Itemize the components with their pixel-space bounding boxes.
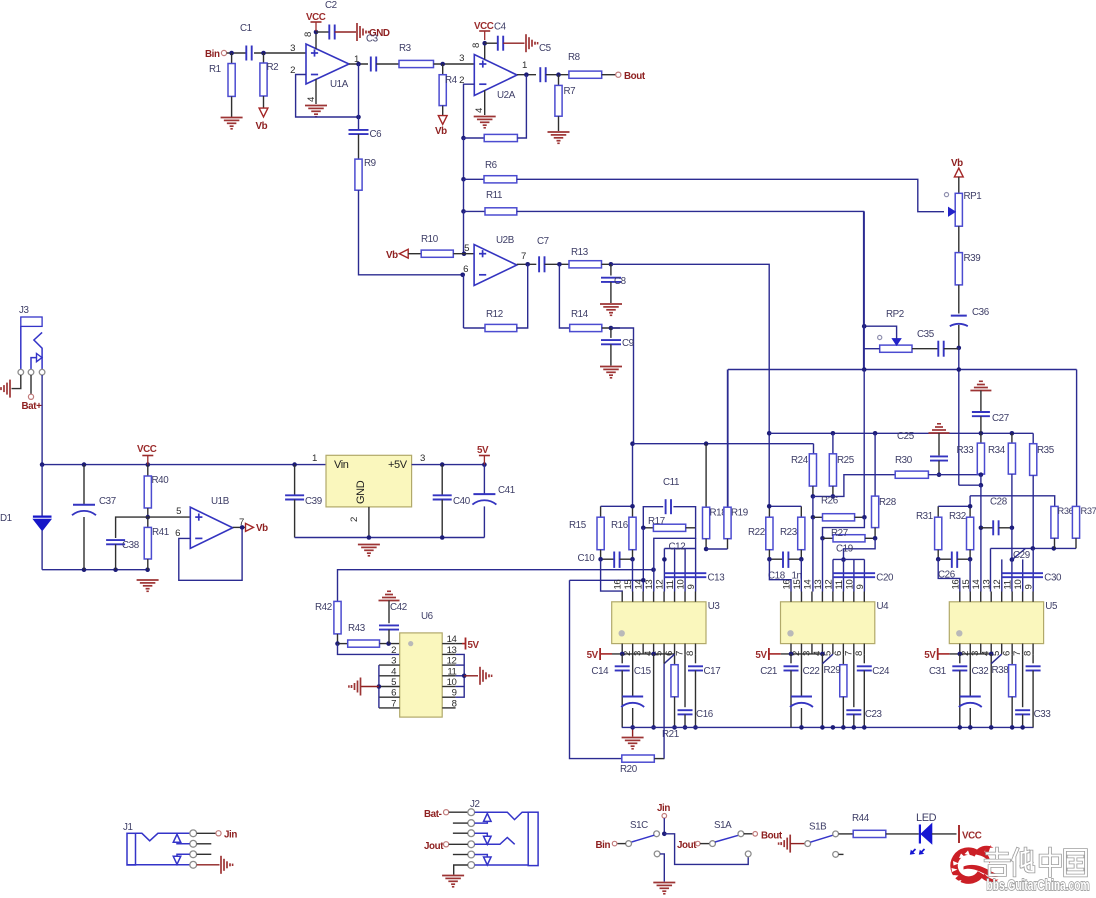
- wire row below R35: [991, 547, 1077, 549]
- wire pin columns U5 right: [1002, 548, 1033, 591]
- svg-text:C13: C13: [708, 573, 726, 584]
- resistor R5 feedback: [484, 134, 517, 141]
- terminal marker RP2: [878, 335, 882, 339]
- svg-text:VCC: VCC: [474, 21, 494, 32]
- svg-text:9: 9: [855, 585, 866, 590]
- svg-text:R27: R27: [831, 528, 848, 539]
- ground at C8: [600, 304, 622, 315]
- svg-text:7: 7: [391, 698, 396, 709]
- svg-text:9: 9: [1024, 585, 1035, 590]
- diode D1: [33, 517, 52, 531]
- svg-text:11: 11: [665, 580, 676, 589]
- wire U2B output: [517, 263, 537, 265]
- svg-text:R4: R4: [445, 75, 458, 86]
- regulator GND pin wire: [368, 507, 370, 538]
- op-amp U2A: [474, 55, 517, 102]
- svg-text:C16: C16: [696, 709, 714, 720]
- resistor R26: [813, 496, 865, 521]
- junction R27 left: [820, 536, 825, 541]
- resistor R37: [1072, 506, 1096, 548]
- resistor R39: [955, 253, 980, 285]
- junction R40 R41: [146, 515, 151, 520]
- svg-text:R7: R7: [564, 86, 576, 97]
- svg-text:Jout: Jout: [424, 841, 444, 852]
- wire R11 column: [863, 211, 865, 369]
- svg-text:7: 7: [675, 651, 686, 656]
- wire RP2 to C35: [912, 348, 938, 350]
- wire U2A pin2 down: [464, 84, 475, 138]
- capacitor C18: [768, 552, 801, 582]
- junctions on ground rail left: [82, 567, 150, 572]
- wire to U6 pin2: [338, 644, 400, 655]
- wire D1 down: [41, 531, 43, 570]
- wire U6 right pin bracket: [456, 654, 465, 697]
- resistor R42: [315, 601, 341, 634]
- wire to R11: [464, 210, 486, 212]
- jack J2 body: [528, 812, 538, 865]
- svg-text:C4: C4: [494, 22, 507, 33]
- pin 4 label U2A: [474, 107, 485, 113]
- wire S1B to R44: [839, 833, 854, 835]
- resistor R32: [949, 506, 974, 559]
- resistor R17: [643, 516, 695, 531]
- svg-text:C24: C24: [872, 666, 890, 677]
- ground at S1C: [653, 883, 675, 894]
- ground at J2: [442, 876, 464, 887]
- label C25: [897, 431, 915, 442]
- capacitor C40: [433, 495, 471, 507]
- wire C41 down: [483, 506, 485, 537]
- contact S1C throw: [626, 841, 632, 847]
- wire R18 to R19 bottom: [706, 548, 727, 550]
- capacitor C27: [972, 412, 1009, 432]
- wire Jout to S1A: [700, 843, 710, 845]
- svg-text:R25: R25: [837, 455, 855, 466]
- svg-text:7: 7: [843, 651, 854, 656]
- junction at R11: [461, 209, 466, 214]
- capacitor C26: [938, 552, 970, 581]
- junction at R6: [461, 177, 466, 182]
- IC U5 bottom pins: [960, 644, 1034, 656]
- op-amp U2B: [474, 235, 517, 286]
- svg-text:C35: C35: [917, 329, 935, 340]
- svg-text:RP1: RP1: [964, 191, 982, 202]
- resistor R10: [408, 234, 474, 257]
- capacitor C16: [678, 654, 714, 727]
- resistor R22: [748, 506, 773, 559]
- junctions U5 ground rail: [958, 725, 1025, 730]
- svg-text:R10: R10: [421, 234, 439, 245]
- pin 5 label U1B: [176, 506, 181, 517]
- junction at R1 top: [229, 51, 234, 56]
- pin 6 label U2B: [463, 264, 468, 275]
- svg-text:C15: C15: [634, 666, 652, 677]
- wire top feed line1: [769, 432, 1033, 434]
- wire R14 out: [602, 327, 620, 329]
- svg-text:C41: C41: [498, 485, 515, 496]
- wire U1A output: [349, 63, 368, 65]
- svg-text:R11: R11: [486, 190, 502, 201]
- wire R13 column to R22: [767, 431, 772, 506]
- pin 3 label U2A: [459, 53, 464, 64]
- wire C9 column to R16: [630, 441, 635, 506]
- svg-text:Vb: Vb: [256, 523, 268, 534]
- resistor R3: [399, 43, 434, 68]
- svg-text:8: 8: [471, 43, 482, 48]
- capacitor C42: [379, 602, 407, 630]
- junction C39 top: [292, 462, 297, 467]
- svg-text:C2: C2: [325, 0, 337, 11]
- jack J2 tip contact: [475, 812, 529, 819]
- junction C36 C35: [957, 346, 962, 351]
- resistor R23: [780, 506, 805, 559]
- svg-text:R28: R28: [879, 497, 897, 508]
- junction bus R11 column: [862, 367, 867, 372]
- wire junction down to U5: [958, 348, 960, 485]
- port Bout at S1A: [753, 830, 783, 841]
- label S1C: [630, 820, 648, 831]
- IC U3 body: [612, 601, 721, 644]
- port Jin at S1C: [657, 803, 670, 818]
- capacitor C32: [959, 654, 988, 727]
- svg-text:U1B: U1B: [211, 496, 230, 507]
- potentiometer RP2: [880, 339, 912, 353]
- svg-text:C14: C14: [591, 666, 609, 677]
- junctions C18 row: [767, 557, 803, 562]
- wire R24 R25 bottoms: [813, 494, 835, 499]
- resistor R20: [620, 755, 654, 775]
- svg-text:C40: C40: [453, 496, 471, 507]
- resistor R36: [1051, 506, 1074, 548]
- wire R24 column down: [811, 496, 816, 519]
- svg-text:6: 6: [175, 528, 180, 539]
- capacitor C17: [688, 654, 720, 727]
- junction R18 bottom: [704, 547, 709, 552]
- wire R26 right S-bend: [823, 517, 865, 538]
- capacitor C11: [663, 477, 679, 514]
- wire down to U2B pin5: [463, 211, 465, 253]
- power 5V at regulator: [477, 445, 490, 465]
- svg-text:Vin: Vin: [334, 459, 349, 471]
- pin 4 wire U2A: [484, 90, 486, 115]
- resistor R9: [355, 158, 376, 190]
- label +5V: [388, 459, 408, 471]
- jack J2 sleeve wire: [475, 864, 529, 867]
- junction C28 left: [979, 526, 984, 531]
- svg-text:2: 2: [391, 645, 396, 656]
- potentiometer RP1: [949, 191, 982, 226]
- svg-text:C11: C11: [663, 477, 679, 488]
- junction RP2 wiper: [862, 324, 867, 329]
- wire C39 down: [294, 500, 296, 538]
- capacitor C37: [72, 496, 116, 515]
- label J1: [123, 822, 133, 833]
- resistor R35: [1030, 433, 1055, 548]
- svg-text:C30: C30: [1044, 573, 1062, 584]
- wire to C38: [116, 517, 148, 538]
- jack J1 switch arrow down: [173, 854, 190, 864]
- resistor R38: [992, 654, 1016, 727]
- IC U3 bottom pins: [622, 644, 696, 656]
- svg-text:5: 5: [464, 243, 469, 254]
- svg-text:10: 10: [447, 677, 457, 688]
- jack J3 hook contact: [34, 332, 42, 369]
- power Vb below R2: [256, 108, 268, 132]
- svg-text:C38: C38: [122, 540, 140, 551]
- svg-text:R41: R41: [152, 527, 169, 538]
- svg-text:LED: LED: [916, 812, 937, 824]
- svg-text:GND: GND: [355, 480, 367, 504]
- capacitor C19 bracket: [833, 544, 864, 592]
- wire R42 to U3 pin13: [338, 570, 654, 602]
- svg-text:5V: 5V: [468, 640, 480, 651]
- resistor R43: [338, 623, 400, 647]
- svg-text:R14: R14: [571, 309, 589, 320]
- wire C6 to R9: [358, 134, 360, 159]
- capacitor C38: [106, 540, 140, 551]
- wire bracket R22 R23 tops: [769, 505, 801, 507]
- resistor R25: [829, 433, 854, 496]
- wire to R5: [464, 137, 485, 139]
- LED D2: [920, 824, 932, 844]
- resistor R8: [568, 52, 602, 78]
- resistor R6: [484, 160, 517, 183]
- pin 4 wire U1A: [315, 79, 317, 104]
- svg-text:8: 8: [303, 32, 314, 37]
- wire R12 to output: [517, 264, 528, 328]
- wire R20 right: [654, 758, 664, 760]
- ground at S1B: [779, 835, 791, 853]
- ground at U6 left: [349, 678, 379, 696]
- wire line2 to R24: [813, 444, 815, 454]
- svg-text:C19: C19: [836, 544, 853, 555]
- wire S1A to Bout: [744, 833, 753, 835]
- svg-text:11: 11: [834, 580, 845, 589]
- capacitor C36: [950, 307, 990, 326]
- jack J2 ring contact: [475, 838, 515, 845]
- capacitor C28: [981, 497, 1012, 536]
- wire LED to VCC: [932, 833, 957, 835]
- svg-text:8: 8: [685, 651, 696, 656]
- power 5V at U3: [587, 648, 612, 661]
- wire R16 to pin15: [632, 559, 634, 591]
- svg-text:R20: R20: [620, 764, 638, 775]
- jack J3 body: [21, 317, 42, 326]
- capacitor C39: [285, 495, 322, 507]
- wire Bat- to J2: [449, 811, 468, 813]
- svg-text:C6: C6: [370, 129, 383, 140]
- svg-text:6: 6: [391, 688, 396, 699]
- power 5V at U6 pin14: [456, 638, 480, 652]
- wire pin14 column U5: [980, 485, 982, 591]
- svg-text:Vb: Vb: [435, 126, 447, 137]
- inverted ground at C25: [929, 424, 950, 456]
- wire R42 down: [337, 634, 339, 644]
- svg-text:Vb: Vb: [386, 250, 398, 261]
- wire C36 down: [958, 325, 960, 348]
- svg-text:R13: R13: [571, 247, 589, 258]
- svg-text:S1B: S1B: [809, 822, 827, 833]
- jack J2 switch arrow 1: [475, 813, 491, 823]
- wire Bin to U1A pin3: [227, 52, 306, 54]
- svg-text:Bout: Bout: [624, 71, 646, 82]
- svg-text:5V: 5V: [924, 650, 936, 661]
- svg-text:C37: C37: [99, 496, 116, 507]
- pin 1 label U1A: [354, 54, 359, 65]
- svg-text:C20: C20: [876, 573, 894, 584]
- svg-text:R26: R26: [821, 496, 839, 507]
- svg-text:3: 3: [391, 656, 396, 667]
- ground below U3: [622, 727, 644, 748]
- svg-text:C33: C33: [1034, 709, 1052, 720]
- resistor R33: [957, 433, 985, 474]
- capacitor C13: [664, 573, 725, 584]
- pin 8 wire U2A: [484, 43, 486, 59]
- svg-text:10: 10: [1013, 580, 1024, 590]
- wire ground rail left: [42, 569, 148, 571]
- junction U3 pin13 net: [651, 567, 656, 572]
- pin 3 label U1A: [290, 43, 295, 54]
- wire RP2 column to R26: [862, 370, 867, 520]
- svg-text:12: 12: [655, 580, 666, 590]
- svg-text:U5: U5: [1045, 601, 1058, 612]
- junction at R7 top: [556, 72, 561, 77]
- switch S1C blade: [631, 835, 654, 842]
- svg-text:13: 13: [644, 580, 655, 590]
- svg-text:1n: 1n: [792, 571, 802, 582]
- svg-text:6: 6: [833, 651, 844, 656]
- junctions on VCC rail: [40, 462, 150, 467]
- junction at R4 top: [440, 62, 445, 67]
- resistor R27: [823, 528, 876, 542]
- capacitor at U2A output: [540, 67, 545, 82]
- svg-text:R22: R22: [748, 527, 765, 538]
- junction feed U4: [767, 504, 772, 509]
- svg-text:5V: 5V: [477, 445, 489, 456]
- wire U5 pin4 to ground rail: [990, 654, 992, 728]
- resistor R4: [439, 64, 458, 116]
- wire U4 pin5 jog: [822, 654, 832, 664]
- wire Jin down: [663, 818, 665, 834]
- wire S1C to S1A alternate: [664, 834, 748, 865]
- wire R44 to LED: [886, 833, 919, 835]
- terminal marker RP1: [944, 193, 948, 197]
- contact S1B right: [833, 831, 839, 837]
- svg-text:R29: R29: [824, 665, 841, 676]
- 5V rail U4: [781, 652, 825, 657]
- wire feed line to R24: [633, 443, 814, 445]
- power VCC at U1A: [306, 12, 326, 31]
- pin 1 label regulator: [312, 453, 317, 464]
- svg-text:C36: C36: [972, 307, 990, 318]
- wire pin9 column U3: [695, 538, 697, 591]
- junction C42 U6 pin1: [386, 641, 391, 646]
- wire C11 loop left: [643, 507, 663, 528]
- pin 4 label U1A: [306, 96, 317, 102]
- port Bout: [616, 71, 646, 82]
- capacitor C15: [621, 654, 651, 727]
- svg-text:5: 5: [176, 506, 181, 517]
- wire U1A feedback: [296, 75, 359, 118]
- svg-text:10: 10: [676, 580, 687, 590]
- svg-text:VCC: VCC: [306, 12, 326, 23]
- wire C11 loop right: [673, 507, 695, 528]
- svg-text:3: 3: [459, 53, 464, 64]
- junction R14 C9: [609, 326, 614, 331]
- svg-text:U4: U4: [877, 601, 890, 612]
- svg-text:R38: R38: [992, 665, 1010, 676]
- wire R3 to U2A: [434, 63, 475, 65]
- svg-text:C42: C42: [390, 602, 407, 613]
- svg-text:C21: C21: [760, 666, 777, 677]
- pin 2 label U2A: [459, 75, 464, 86]
- svg-text:R3: R3: [399, 43, 412, 54]
- svg-text:7: 7: [1012, 651, 1023, 656]
- capacitor C24: [857, 654, 890, 727]
- label Vin: [334, 459, 349, 471]
- wire J1 to Jin: [197, 832, 216, 834]
- inverted ground at C27: [970, 381, 991, 411]
- pin 1 label U2A: [522, 60, 527, 71]
- svg-text:1: 1: [312, 453, 317, 464]
- regulator U7 body: [326, 455, 412, 507]
- IC U4 bottom pins: [791, 644, 865, 656]
- svg-text:C39: C39: [305, 496, 322, 507]
- jack J1 switch arrow up: [173, 834, 190, 844]
- capacitor C35: [917, 329, 944, 357]
- wire C38 down: [115, 544, 117, 569]
- resistor R12: [485, 309, 517, 332]
- label J2: [470, 799, 480, 810]
- junction feedback U1A: [356, 115, 361, 120]
- resistor R1: [209, 53, 235, 118]
- svg-text:R2: R2: [267, 62, 279, 73]
- svg-text:R44: R44: [852, 813, 870, 824]
- stub J2 pin5: [453, 854, 468, 856]
- wire R34 column down: [1010, 526, 1015, 562]
- inverted ground at C42: [379, 591, 400, 600]
- jack J3 terminals: [18, 369, 45, 375]
- wire pin14 column U4: [812, 517, 814, 591]
- wire to U4 pin11: [841, 538, 875, 562]
- wire R17 right to pin13: [654, 528, 696, 570]
- junction R33 bottom: [979, 472, 984, 487]
- resistor R16: [611, 506, 636, 559]
- svg-text:13: 13: [813, 580, 824, 590]
- ground at regulator: [358, 545, 380, 556]
- svg-text:1: 1: [522, 60, 527, 71]
- wire R20 net to pin14: [570, 578, 646, 583]
- wire to R7 R8: [546, 74, 569, 76]
- pin 7 label U2B: [521, 251, 526, 262]
- power Vb at RP1: [951, 158, 963, 177]
- junction VCC U2A: [482, 41, 487, 46]
- label D1: [0, 513, 12, 524]
- junction U2B output: [525, 262, 530, 267]
- ground at C9: [600, 367, 622, 378]
- svg-text:3: 3: [420, 453, 425, 464]
- resistor R28: [872, 433, 897, 538]
- pin 8 label U1A: [303, 32, 314, 37]
- wire to C41: [483, 465, 485, 495]
- op-amp U1A: [306, 44, 349, 90]
- jack J3 left contact: [20, 326, 22, 369]
- port Bin: [205, 49, 227, 60]
- junctions on regulator ground rail: [367, 535, 445, 540]
- IC U5 body: [949, 601, 1058, 644]
- label R21: [662, 729, 679, 740]
- wire J3 to ground: [12, 375, 21, 389]
